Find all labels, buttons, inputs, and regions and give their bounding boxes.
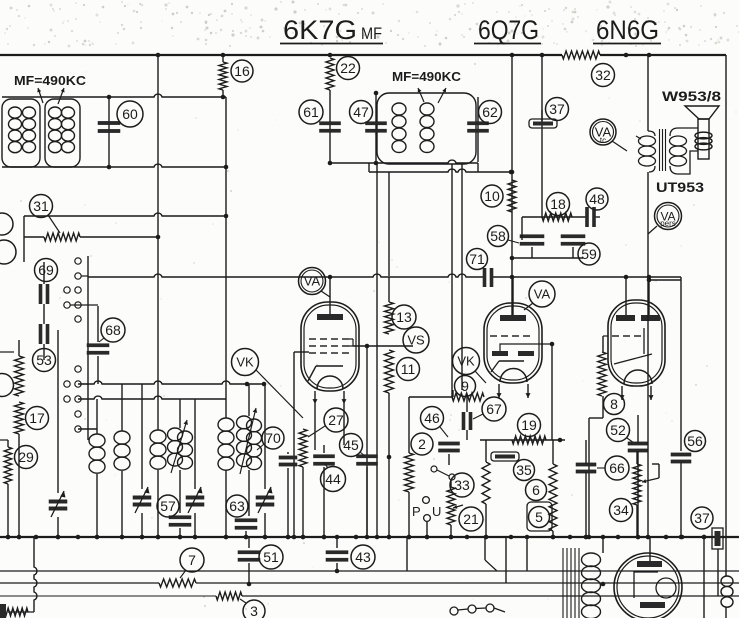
svg-text:7: 7	[188, 552, 196, 568]
svg-text:46: 46	[424, 410, 440, 426]
svg-text:37: 37	[694, 510, 710, 526]
svg-text:60: 60	[122, 106, 138, 122]
svg-text:61: 61	[303, 104, 319, 120]
svg-text:MF=490KC: MF=490KC	[392, 70, 461, 84]
svg-text:52: 52	[610, 422, 626, 438]
svg-text:10: 10	[484, 188, 500, 204]
svg-text:VA: VA	[534, 287, 551, 302]
svg-text:70: 70	[265, 430, 281, 446]
svg-text:P: P	[412, 504, 421, 519]
svg-text:43: 43	[355, 549, 371, 565]
svg-text:8: 8	[610, 396, 618, 412]
svg-text:pers: pers	[660, 219, 676, 228]
svg-text:U: U	[432, 504, 441, 519]
svg-text:67: 67	[486, 401, 502, 417]
svg-text:57: 57	[160, 498, 176, 514]
svg-text:31: 31	[33, 198, 49, 214]
svg-text:VK: VK	[457, 354, 475, 369]
svg-text:56: 56	[687, 433, 703, 449]
svg-text:UT953: UT953	[656, 180, 705, 195]
svg-text:16: 16	[234, 63, 250, 79]
svg-text:32: 32	[595, 67, 611, 83]
svg-text:71: 71	[469, 251, 485, 267]
svg-text:MF: MF	[361, 24, 382, 43]
svg-text:22: 22	[340, 60, 356, 76]
svg-text:68: 68	[105, 322, 121, 338]
svg-text:W953/8: W953/8	[662, 89, 722, 104]
svg-text:62: 62	[482, 104, 498, 120]
svg-text:11: 11	[401, 361, 416, 377]
svg-text:66: 66	[609, 460, 625, 476]
svg-text:47: 47	[353, 104, 369, 120]
svg-text:tc: tc	[600, 136, 606, 145]
svg-text:29: 29	[18, 449, 34, 465]
svg-text:35: 35	[516, 462, 532, 478]
svg-text:18: 18	[550, 196, 566, 212]
svg-text:VA: VA	[304, 274, 321, 289]
svg-text:6Q7G: 6Q7G	[478, 15, 539, 45]
svg-text:69: 69	[38, 262, 54, 278]
svg-text:6K7G: 6K7G	[283, 15, 357, 45]
svg-text:48: 48	[589, 191, 605, 207]
svg-text:33: 33	[454, 477, 470, 493]
svg-text:13: 13	[396, 309, 412, 325]
svg-text:21: 21	[463, 511, 479, 527]
svg-text:MF=490KC: MF=490KC	[14, 74, 86, 88]
svg-text:34: 34	[613, 502, 629, 518]
svg-text:VK: VK	[236, 355, 254, 370]
svg-text:2: 2	[418, 436, 426, 452]
svg-text:45: 45	[343, 437, 359, 453]
svg-text:37: 37	[549, 101, 565, 117]
svg-text:VS: VS	[407, 333, 425, 348]
svg-text:17: 17	[29, 410, 45, 426]
svg-text:51: 51	[263, 549, 279, 565]
svg-text:44: 44	[325, 471, 341, 487]
svg-text:9: 9	[461, 378, 469, 394]
svg-text:58: 58	[490, 228, 506, 244]
svg-text:6: 6	[532, 482, 540, 498]
svg-text:27: 27	[328, 412, 344, 428]
svg-text:6N6G: 6N6G	[596, 15, 659, 45]
svg-text:19: 19	[521, 417, 537, 433]
svg-text:63: 63	[229, 498, 245, 514]
svg-text:3: 3	[250, 603, 258, 618]
svg-text:53: 53	[36, 352, 52, 368]
svg-text:5: 5	[535, 509, 543, 525]
svg-text:59: 59	[581, 246, 597, 262]
